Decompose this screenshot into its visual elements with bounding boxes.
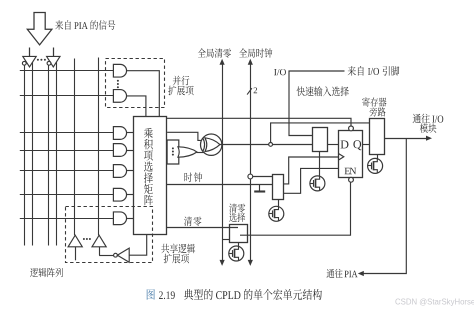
dashed box: shared expander bbox=[66, 207, 153, 263]
OR gate (product term sum) bbox=[178, 147, 197, 157]
D flip-flop box bbox=[339, 131, 363, 178]
label: clear PT bbox=[184, 217, 201, 226]
svg-text:CSDN @StarSkyHorse: CSDN @StarSkyHorse bbox=[395, 298, 474, 307]
junction circle on global clock bbox=[248, 174, 253, 179]
label: register bypass bbox=[362, 97, 386, 116]
register bypass box bbox=[370, 119, 385, 155]
label: global clear bbox=[198, 48, 231, 57]
AND gate G1 (product term) bbox=[113, 127, 133, 140]
AND gate G4 (product term) bbox=[113, 188, 133, 201]
label: fast input select bbox=[297, 86, 349, 96]
wire mux1 to EPROM cell bbox=[319, 151, 321, 176]
label D bbox=[341, 141, 349, 149]
wire OR to XOR bbox=[197, 152, 204, 154]
XOR control PT wire bbox=[167, 132, 201, 140]
shared expander buffer B2 bbox=[92, 235, 106, 255]
clock PT wire bbox=[167, 184, 272, 186]
product-term select matrix box bbox=[134, 117, 167, 235]
clear PT wire bbox=[167, 227, 238, 229]
parallel expander AND gate E1 bbox=[113, 64, 126, 77]
EPROM cell under clock/enable mux bbox=[269, 206, 284, 221]
wire E1 output to matrix bbox=[127, 71, 159, 117]
shared expander inverter bbox=[114, 248, 130, 262]
label: global clock bbox=[239, 48, 272, 57]
EPROM cell under clear mux bbox=[229, 246, 244, 261]
shared expander buffer B1 bbox=[68, 235, 82, 260]
wire clear-select output to FF clear bbox=[240, 182, 351, 235]
wire FF Q to bypass box bbox=[362, 144, 370, 146]
AND gate G3 (product term) bbox=[113, 165, 133, 178]
FF clock triangle bbox=[338, 153, 344, 160]
ellipsis dots between E1 and E2 bbox=[117, 80, 119, 88]
bus-width slash /2 bbox=[247, 87, 257, 94]
preset PT wire (matrix top to FF preset) bbox=[167, 118, 351, 126]
wire: XOR output to fast-input mux bbox=[220, 144, 313, 146]
FF preset bubble bbox=[349, 126, 354, 131]
output wire to I/O module bbox=[385, 136, 432, 141]
label: clear select bbox=[229, 204, 245, 222]
fast input select mux box bbox=[313, 128, 328, 152]
wire clock mux output to FF clock bbox=[283, 157, 338, 184]
clock/enable select mux box bbox=[273, 175, 284, 200]
label: shared logic expander bbox=[161, 244, 195, 264]
EPROM cell under bypass box bbox=[368, 158, 383, 173]
label: from I/O pin bbox=[348, 66, 400, 76]
dashed box: parallel expander bbox=[106, 59, 165, 108]
wire box2 to EPROM cell bbox=[278, 199, 280, 206]
wire global clear jog into clear mux bbox=[222, 239, 230, 241]
XOR gate inside circle bbox=[203, 138, 220, 152]
EPROM cell under mux1 bbox=[310, 176, 325, 191]
ellipsis dots between buffers bbox=[37, 59, 46, 61]
AND gate G2 (product term) bbox=[113, 144, 133, 157]
wire enable output to FF EN bbox=[283, 168, 338, 193]
label: signal from PIA bbox=[55, 20, 115, 30]
label: logic array bbox=[30, 268, 63, 277]
inverter/buffer T1 bbox=[22, 56, 36, 67]
multi-PT collector box bbox=[167, 140, 179, 164]
global clear vertical wire bbox=[220, 59, 225, 266]
junction circle on XOR output bbox=[269, 143, 273, 147]
wire junction to clock/enable mux bbox=[253, 176, 273, 178]
ground symbol bbox=[254, 185, 265, 192]
ellipsis dots between B1 B2 bbox=[83, 238, 91, 240]
label Q bbox=[353, 140, 361, 150]
logic array row wires (product term inputs) bbox=[20, 71, 114, 219]
label: product term select matrix (vertical) bbox=[144, 128, 153, 205]
label EN bbox=[345, 168, 357, 174]
programmable XOR circle bbox=[201, 134, 222, 155]
wire mux1 to D input bbox=[327, 144, 338, 146]
feedback wire to PIA bbox=[358, 138, 407, 276]
caption figure number bbox=[147, 289, 155, 300]
wire: bypass branch to register-bypass box bbox=[271, 123, 370, 143]
wire matrix to inverter bbox=[129, 235, 147, 256]
FF clear bubble bbox=[349, 177, 354, 182]
clear select mux box bbox=[230, 225, 248, 243]
wire E2 output to matrix bbox=[127, 96, 146, 117]
label: parallel expander bbox=[168, 76, 193, 96]
label: I/O bbox=[274, 69, 286, 75]
label: clock PT bbox=[184, 172, 202, 182]
global clock vertical wire bbox=[248, 59, 253, 266]
logic array column wires bbox=[25, 58, 99, 246]
AND gate G5 (product term) bbox=[113, 212, 133, 225]
wire from I/O pin bbox=[289, 71, 345, 136]
wire box3 to EPROM cell bbox=[238, 242, 240, 246]
wire inverter to B2 bbox=[99, 255, 114, 257]
parallel expander AND gate E2 bbox=[113, 90, 126, 103]
inverter/buffer T2 input wire bbox=[53, 48, 55, 57]
inverter/buffer T2 bbox=[47, 56, 60, 67]
wire bypass to EPROM cell bbox=[377, 154, 379, 158]
caption text bbox=[159, 289, 322, 300]
inverter/buffer T1 input wire bbox=[29, 48, 31, 57]
label: to I/O module bbox=[413, 114, 444, 133]
label: to PIA bbox=[327, 269, 358, 278]
input block arrow from PIA bbox=[27, 13, 52, 45]
